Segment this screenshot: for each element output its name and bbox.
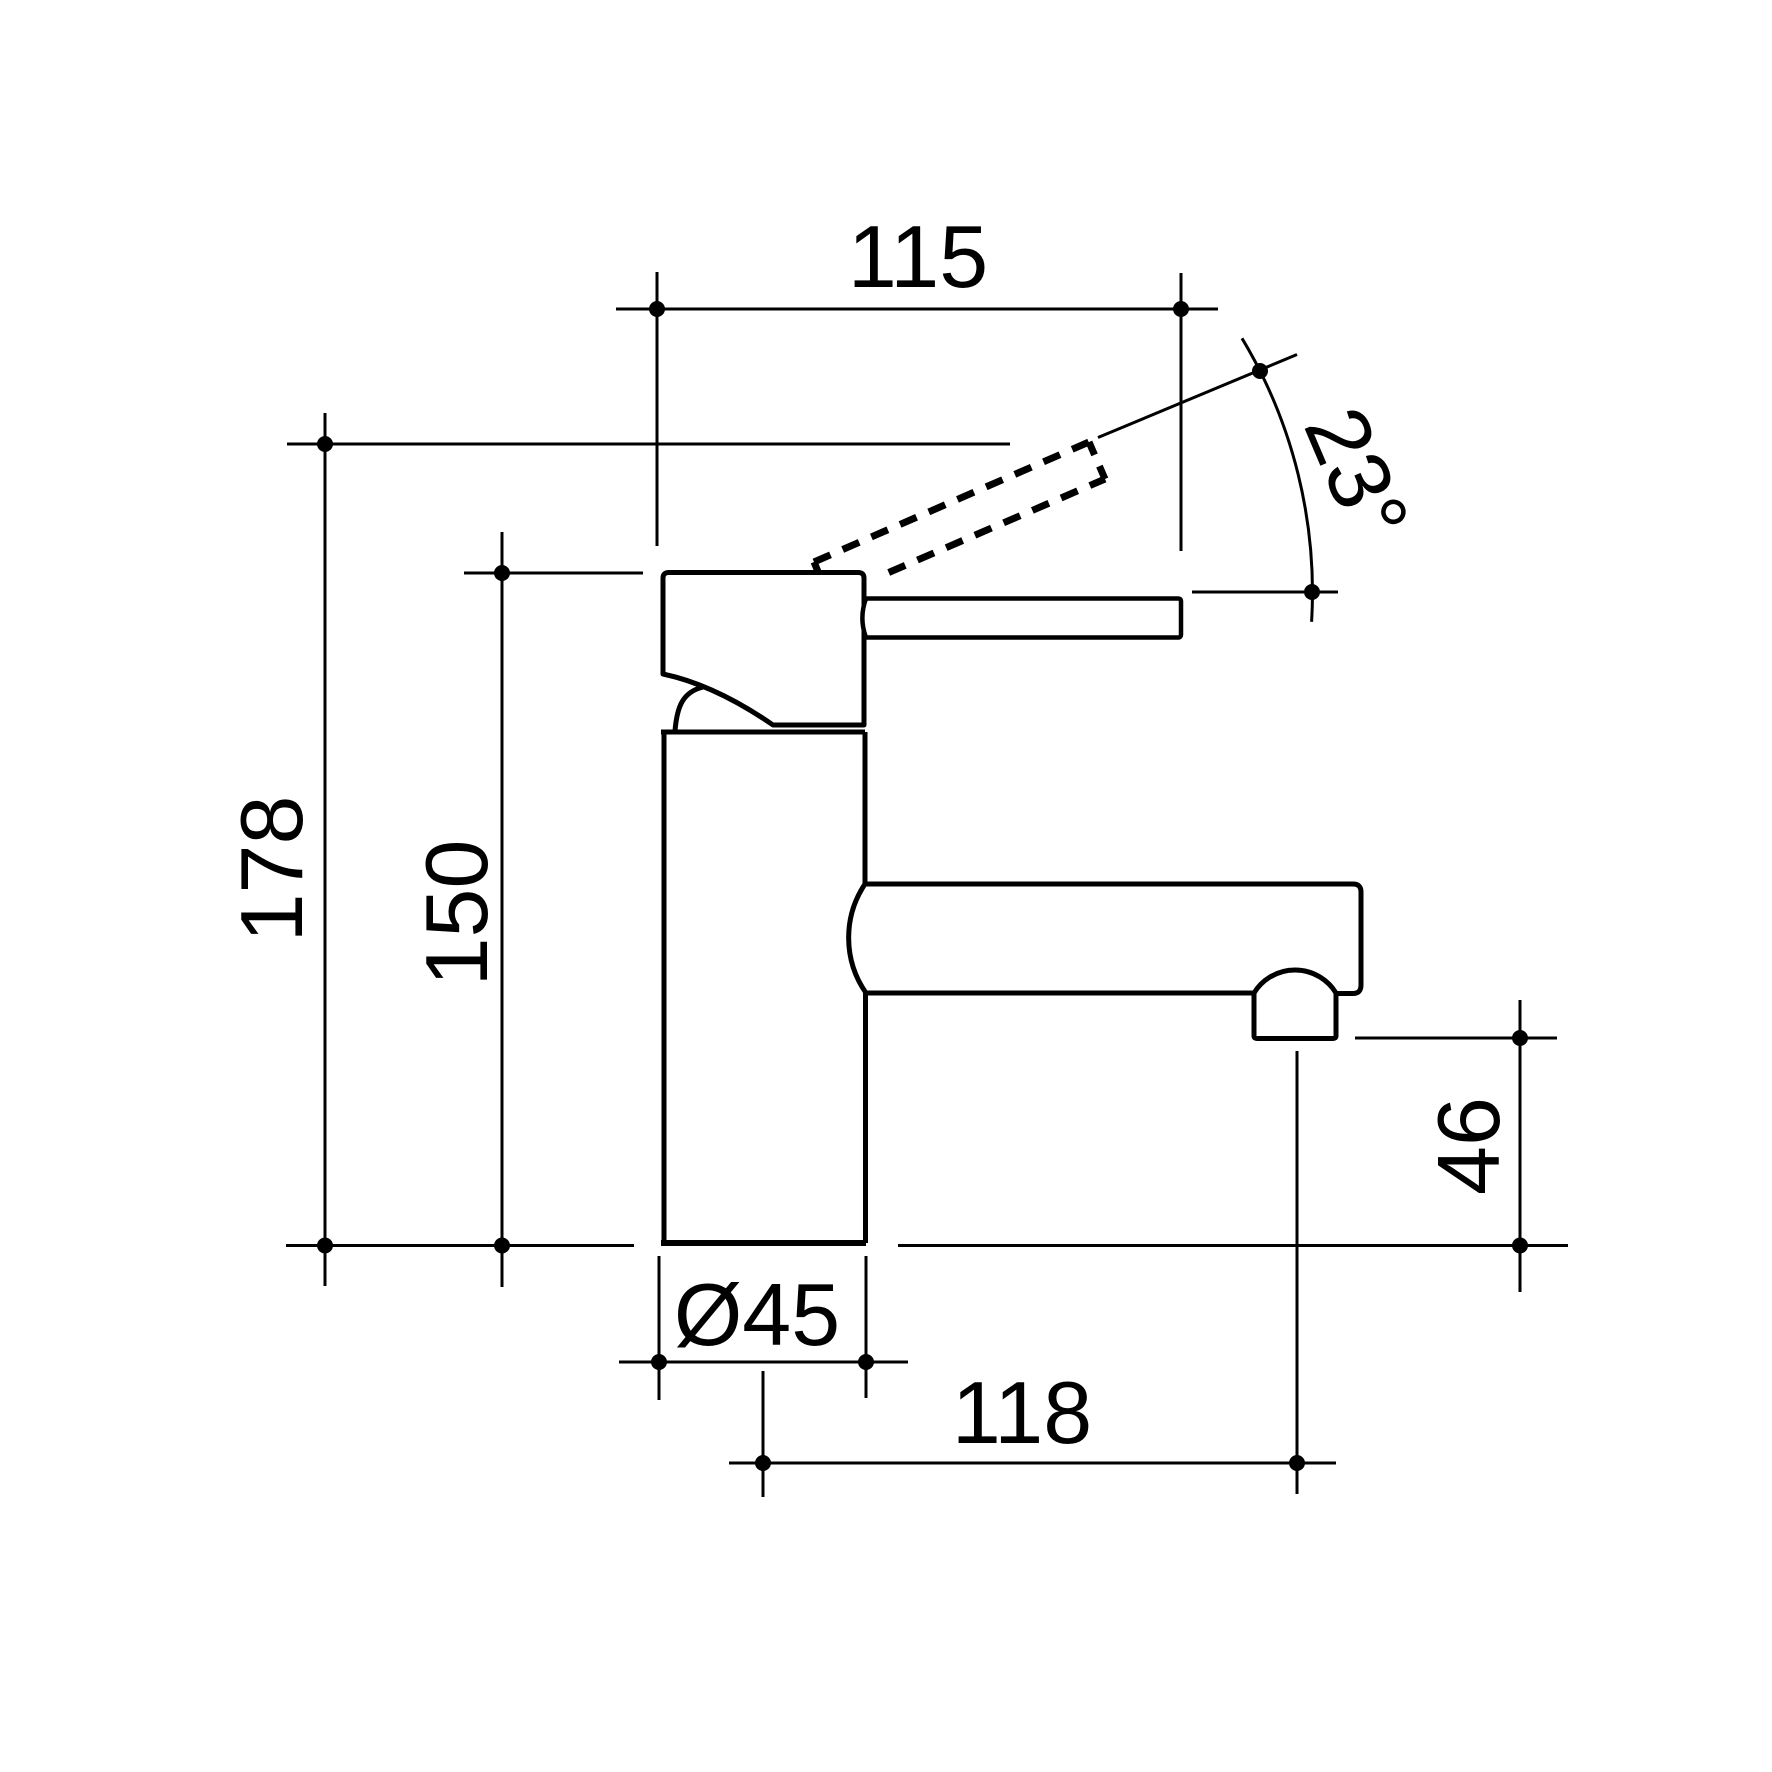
- dim 118 left extension: [762, 1371, 765, 1497]
- dot 178 bottom: [317, 1238, 333, 1254]
- dim 115 right extension: [1180, 273, 1183, 551]
- dim D45 line: [619, 1361, 908, 1364]
- dim 23 slanted ray: [1098, 355, 1297, 438]
- svg-text:150: 150: [407, 840, 506, 987]
- cartridge dome arc: [675, 687, 703, 731]
- dashed lever bottom edge: [889, 479, 1105, 573]
- spout: [849, 884, 1361, 1039]
- dot 118 right: [1289, 1455, 1305, 1471]
- dot D45 right: [858, 1354, 874, 1370]
- handle cap block: [663, 573, 864, 726]
- dim 115 line: [616, 308, 1218, 311]
- dot 46 top: [1512, 1030, 1528, 1046]
- dim 178 top extension: [287, 443, 1010, 446]
- dot 178 top: [317, 436, 333, 452]
- dim 23 horizontal ray: [1192, 591, 1338, 594]
- dot 115 left: [649, 301, 665, 317]
- dim 115 left extension: [656, 272, 659, 546]
- dim 150 line: [501, 532, 504, 1287]
- dashed lever top edge: [814, 442, 1089, 562]
- dim 118 right extension: [1296, 1051, 1299, 1494]
- column bottom edge: [661, 1240, 866, 1246]
- body column: [661, 732, 866, 1243]
- dim D45 right extension: [865, 1256, 868, 1398]
- dim D45 left extension: [658, 1256, 661, 1400]
- dot 118 left: [755, 1455, 771, 1471]
- dot 23 lower: [1304, 584, 1320, 600]
- svg-text:115: 115: [848, 207, 988, 306]
- column top edge: [661, 730, 865, 735]
- dot 23 upper: [1252, 363, 1268, 379]
- svg-text:178: 178: [222, 796, 321, 943]
- column left edge: [662, 732, 667, 1243]
- dot 150 top: [494, 565, 510, 581]
- baseline right segment: [898, 1244, 1568, 1247]
- dim 150 top extension: [464, 572, 643, 575]
- spout outlet dome: [1254, 970, 1336, 993]
- dashed lever left end stub: [814, 562, 818, 572]
- svg-text:46: 46: [1419, 1097, 1518, 1195]
- dot 150 bottom: [494, 1238, 510, 1254]
- lever handle: [862, 599, 1181, 638]
- dim 23 arc: [1242, 338, 1312, 622]
- dim 178 line: [324, 413, 327, 1286]
- baseline left segment: [286, 1244, 634, 1247]
- dot D45 left: [651, 1354, 667, 1370]
- dot 115 right: [1173, 301, 1189, 317]
- dot 46 bottom: [1512, 1238, 1528, 1254]
- column right edge lower: [863, 992, 868, 1243]
- column right edge upper: [863, 732, 868, 884]
- dashed raised lever: [814, 442, 1105, 573]
- dashed lever right end edge: [1089, 442, 1105, 479]
- dim 46 line: [1519, 1000, 1522, 1292]
- dim 118 line: [729, 1462, 1336, 1465]
- svg-text:Ø45: Ø45: [674, 1265, 840, 1364]
- dim 46 top extension: [1355, 1037, 1557, 1040]
- svg-text:118: 118: [952, 1363, 1092, 1462]
